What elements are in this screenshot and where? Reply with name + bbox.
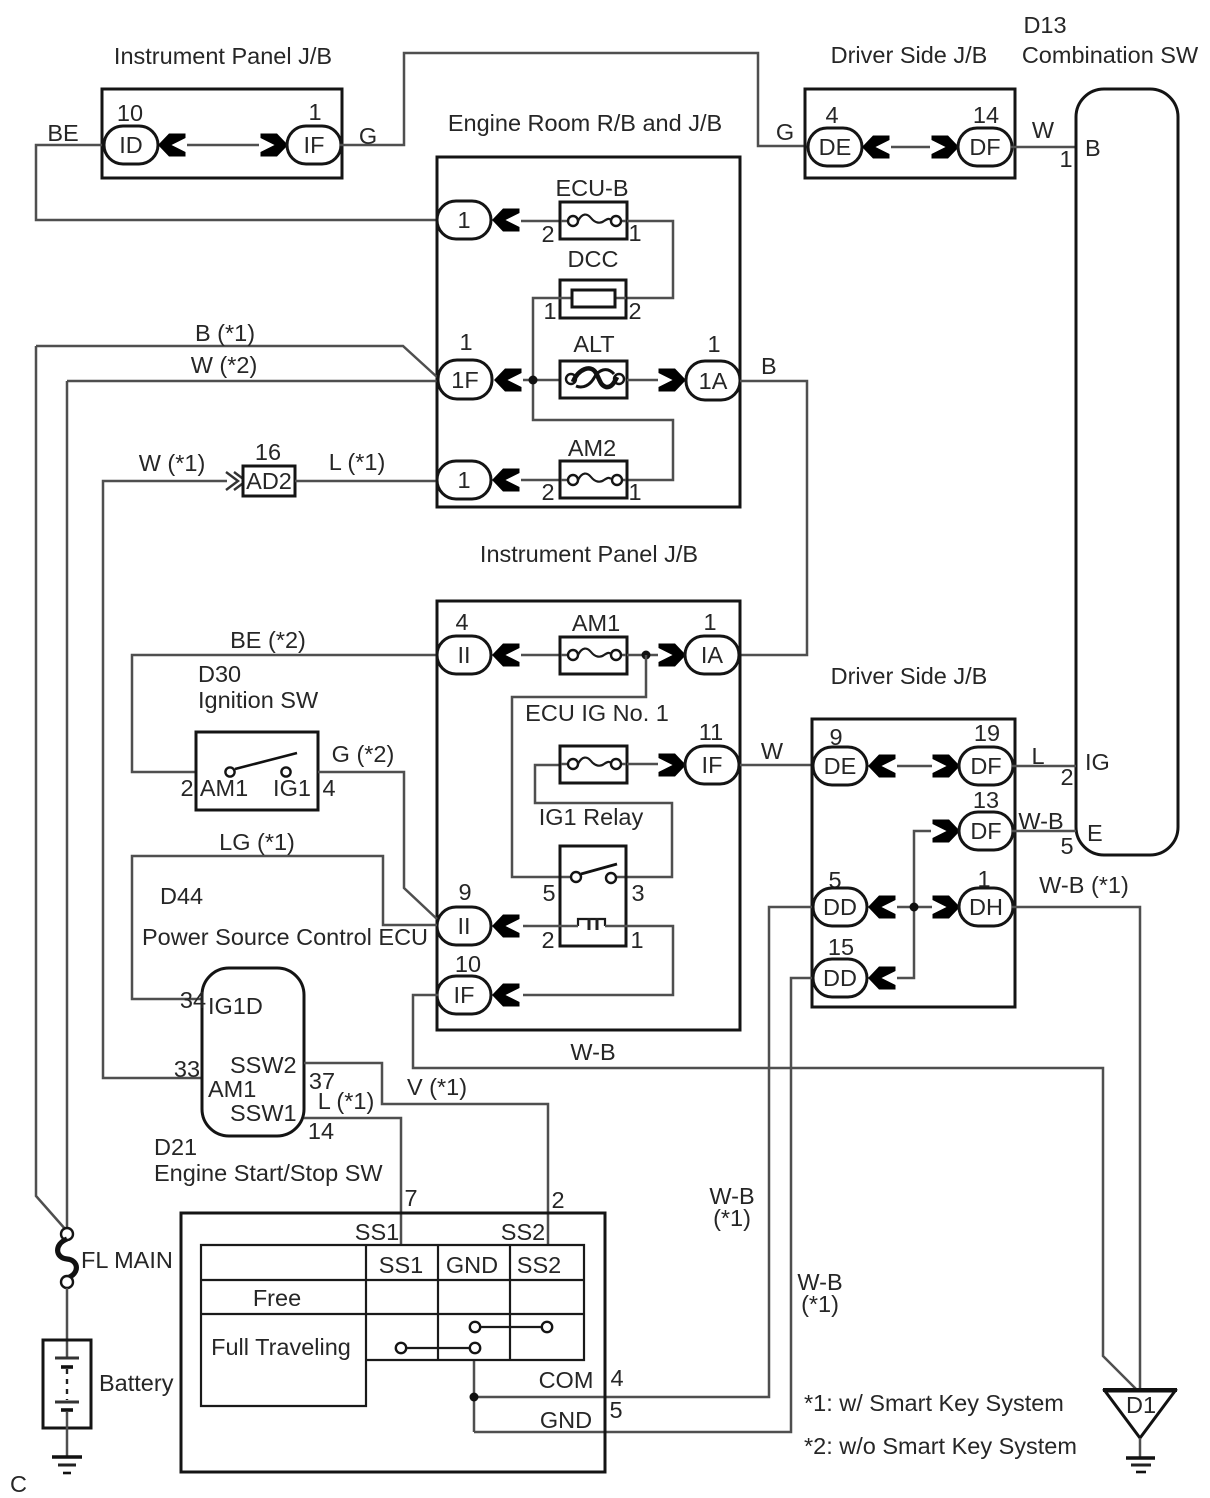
svg-text:IG1: IG1 [273, 775, 311, 801]
svg-text:GND: GND [446, 1252, 498, 1278]
wire DD15 up to DF13 arrow [897, 831, 931, 978]
pin 13 label [973, 787, 999, 813]
svg-text:AM1: AM1 [208, 1076, 256, 1102]
wire W from IF11 to DE9 [740, 764, 812, 767]
label G right [776, 119, 794, 145]
relay IG1 coil [578, 918, 605, 930]
svg-text:AM1: AM1 [572, 610, 620, 636]
svg-text:B (*1): B (*1) [195, 320, 255, 346]
svg-text:L: L [1031, 743, 1044, 769]
terminal SS1 label top [355, 1219, 399, 1245]
wire L(*1) from SSW1 to SS1 [304, 1118, 401, 1245]
wire GND to DD15 [474, 978, 812, 1432]
wire W(*2) from battery rail to 1F [67, 380, 437, 383]
svg-text:W-B (*1): W-B (*1) [1039, 872, 1129, 898]
relay IG1 contact [571, 864, 617, 883]
junction block box J/B top left [102, 89, 342, 178]
wire W-B from IF10 to ground D1 [413, 995, 1136, 1389]
wire battery to ground [66, 1412, 69, 1456]
table header GND [446, 1252, 498, 1278]
svg-text:ECU IG No. 1: ECU IG No. 1 [525, 700, 669, 726]
svg-text:SSW1: SSW1 [230, 1100, 297, 1126]
svg-text:Engine Start/Stop SW: Engine Start/Stop SW [154, 1160, 383, 1186]
svg-text:C: C [10, 1471, 27, 1497]
pin 2 label AM2 [541, 479, 554, 505]
fuse FL MAIN [58, 1228, 77, 1288]
table header SS2 [517, 1252, 561, 1278]
svg-text:2: 2 [1060, 764, 1073, 790]
svg-text:1: 1 [308, 99, 321, 125]
arrow left at II pin9 [492, 915, 520, 938]
switch D30 ignition SW box [196, 732, 318, 810]
wire fuse to IF11 arrow [627, 763, 658, 766]
connector DH [959, 888, 1013, 926]
svg-text:DCC: DCC [568, 246, 619, 272]
connector 1F [438, 360, 492, 399]
svg-text:1: 1 [543, 298, 556, 324]
wire ECU-B pin1 to DCC pin2 [627, 221, 673, 298]
wire B(*1) from battery rail to 1F [36, 346, 437, 377]
connector DF [958, 128, 1012, 166]
pin 2 label DCC [628, 298, 641, 324]
svg-text:AM2: AM2 [568, 435, 616, 461]
connector ID [104, 126, 158, 164]
wire W from DF to combination switch [1011, 146, 1076, 149]
junction node DD5-DH-DF13 [910, 903, 919, 912]
svg-text:1: 1 [457, 207, 470, 233]
arrow left at connector 1 bottom [492, 469, 520, 492]
label D44 [160, 883, 203, 909]
svg-text:ALT: ALT [573, 331, 614, 357]
arrow right at DF [932, 136, 960, 159]
svg-text:1: 1 [630, 927, 643, 953]
svg-text:SS1: SS1 [379, 1252, 423, 1278]
label W (*1) [139, 450, 206, 476]
wire between DD5 and DH arrows [897, 906, 932, 909]
title Instrument Panel J/B (top left) [114, 43, 332, 69]
svg-text:BE: BE [47, 120, 78, 146]
svg-text:5: 5 [609, 1397, 622, 1423]
svg-text:W-B: W-B [1018, 808, 1063, 834]
label D30 [198, 661, 241, 687]
svg-text:10: 10 [117, 100, 143, 126]
wire relay coil pin2 to II9 arrow [523, 925, 578, 928]
label Engine Start/Stop SW [154, 1160, 383, 1186]
pin 2 label combination SW [1060, 764, 1073, 790]
svg-text:W: W [1032, 117, 1055, 143]
svg-text:ID: ID [119, 132, 143, 158]
pin 10 label [117, 100, 143, 126]
table truth grid [201, 1245, 584, 1406]
ground D1 triangle [1103, 1390, 1177, 1438]
svg-text:D1: D1 [1126, 1392, 1156, 1418]
svg-text:AM1: AM1 [200, 775, 248, 801]
svg-text:7: 7 [404, 1185, 417, 1211]
pin 33 label [174, 1056, 200, 1082]
svg-text:II: II [457, 913, 470, 939]
svg-text:1: 1 [457, 467, 470, 493]
terminal E label [1087, 820, 1103, 846]
label W between boxes [761, 738, 784, 764]
svg-text:2: 2 [541, 221, 554, 247]
pin 4 label D30 [322, 775, 335, 801]
wire L(*1) from AD2 to connector 1 bottom [295, 480, 437, 483]
svg-text:IF: IF [454, 982, 475, 1008]
connector DE (pin9) [813, 747, 867, 785]
svg-text:1A: 1A [699, 368, 728, 394]
title Driver Side J/B (lower) [831, 663, 988, 689]
label L [1031, 743, 1044, 769]
connector II (pin9) [437, 907, 491, 945]
svg-text:D13: D13 [1023, 12, 1066, 38]
connector 1 (AM2 feed) [437, 461, 491, 499]
label V (*1) [407, 1074, 467, 1100]
arrow left at DE [862, 136, 890, 159]
svg-text:*1: w/ Smart Key System: *1: w/ Smart Key System [804, 1390, 1064, 1416]
pin 9 label II [458, 879, 471, 905]
label BE (*2) [230, 627, 306, 653]
label Battery [99, 1370, 174, 1396]
svg-text:5: 5 [1060, 833, 1073, 859]
svg-text:FL MAIN: FL MAIN [81, 1247, 173, 1273]
label L (*1) at SSW1 [318, 1088, 375, 1114]
svg-text:4: 4 [455, 609, 468, 635]
label B [761, 353, 777, 379]
svg-text:Free: Free [253, 1285, 301, 1311]
svg-text:DF: DF [970, 818, 1001, 844]
wire W-B from DF13 to combination SW E [1012, 830, 1076, 833]
junction block box Driver Side J/B lower [812, 719, 1015, 1007]
svg-text:G: G [776, 119, 794, 145]
connector 1A [686, 361, 740, 400]
label W [1032, 117, 1055, 143]
svg-text:COM: COM [539, 1367, 594, 1393]
arrow left at ID [158, 134, 186, 157]
svg-text:2: 2 [180, 775, 193, 801]
wire relay pin3 to fuse ECU IG No.1 [535, 765, 672, 877]
wire FL MAIN to battery [66, 1288, 69, 1358]
contact SS1-GND [396, 1343, 480, 1353]
note *1 smart key [804, 1390, 1064, 1416]
svg-text:LG (*1): LG (*1) [219, 829, 295, 855]
table row Free [253, 1285, 301, 1311]
svg-text:10: 10 [455, 951, 481, 977]
svg-text:D21: D21 [154, 1134, 197, 1160]
terminal AM1 label D44 [208, 1076, 256, 1102]
label D21 [154, 1134, 197, 1160]
svg-text:IA: IA [701, 642, 724, 668]
svg-text:5: 5 [542, 880, 555, 906]
svg-text:E: E [1087, 820, 1103, 846]
pin 2 label ECU-B [541, 221, 554, 247]
svg-text:Engine Room R/B and J/B: Engine Room R/B and J/B [448, 110, 722, 136]
svg-text:Driver Side J/B: Driver Side J/B [831, 42, 988, 68]
svg-text:2: 2 [628, 298, 641, 324]
svg-text:IG: IG [1085, 749, 1110, 775]
label IG1 Relay [539, 804, 644, 830]
svg-text:(*1): (*1) [713, 1205, 751, 1231]
junction block box Instrument Panel J/B middle [437, 601, 740, 1030]
connector IF (pin10) [437, 976, 491, 1014]
svg-text:L (*1): L (*1) [318, 1088, 375, 1114]
pin 5 label combination SW [1060, 833, 1073, 859]
svg-text:16: 16 [255, 439, 281, 465]
svg-text:Power Source Control ECU: Power Source Control ECU [142, 924, 428, 950]
wire B from 1A down to IA [740, 381, 807, 655]
svg-text:V (*1): V (*1) [407, 1074, 467, 1100]
svg-text:W (*1): W (*1) [139, 450, 206, 476]
label 16 above AD2 [255, 439, 281, 465]
ground below D1 [1126, 1458, 1155, 1472]
wire arrow to fuse AM1 [521, 654, 560, 657]
terminal SSW1 label [230, 1100, 297, 1126]
connector DF (pin19) [959, 747, 1013, 785]
svg-text:Instrument Panel J/B: Instrument Panel J/B [480, 541, 698, 567]
relay block box Engine Room R/B and J/B [437, 157, 740, 507]
connector DD (pin15) [813, 959, 867, 997]
pin 34 label [180, 987, 206, 1013]
connector DF (pin13) [959, 812, 1013, 850]
label LG (*1) [219, 829, 295, 855]
svg-text:Ignition SW: Ignition SW [198, 687, 319, 713]
svg-text:Battery: Battery [99, 1370, 174, 1396]
svg-text:DH: DH [969, 894, 1003, 920]
pin 1 label DCC [543, 298, 556, 324]
arrow left at IF pin10 [492, 984, 520, 1007]
fusible link ALT [560, 361, 627, 398]
junction block box Driver Side J/B top [805, 89, 1015, 178]
fuse ECU-B [560, 202, 627, 239]
terminal B label [1085, 135, 1101, 161]
connector IA [685, 636, 739, 674]
pin 5 label DD [828, 867, 841, 893]
wire ALT fuse to arrow right [627, 379, 658, 382]
pin 4 label II [455, 609, 468, 635]
fuse ECU IG No.1 [560, 746, 627, 783]
arrow right at IF [261, 134, 289, 157]
arrow left at DE9 [868, 755, 896, 778]
wire 1F arrow to fuse ALT [523, 379, 561, 382]
wire relay pin1 to IF10 arrow [523, 926, 673, 995]
label BE [47, 120, 78, 146]
pin 2 label relay [541, 927, 554, 953]
svg-text:IF: IF [304, 132, 325, 158]
svg-text:II: II [457, 642, 470, 668]
svg-text:33: 33 [174, 1056, 200, 1082]
terminal SS2 label top [501, 1219, 545, 1245]
label W-B (*1) stack right [797, 1269, 842, 1317]
title Instrument Panel J/B (middle) [480, 541, 698, 567]
label W-B [570, 1039, 615, 1065]
svg-text:1: 1 [628, 220, 641, 246]
svg-text:D44: D44 [160, 883, 203, 909]
fuse AM1 [560, 637, 627, 674]
pin 1 label above 1A [707, 331, 720, 357]
wire G(*2) from IG1 to II9 [318, 772, 437, 919]
svg-text:9: 9 [458, 879, 471, 905]
pin 3 label relay [631, 880, 644, 906]
svg-text:14: 14 [308, 1118, 334, 1144]
svg-text:DE: DE [824, 753, 857, 779]
pin 2 label SS2 wire [551, 1187, 564, 1213]
svg-text:14: 14 [973, 102, 999, 128]
svg-text:GND: GND [540, 1407, 592, 1433]
wire G from IF to Driver Side J/B DE [340, 53, 805, 146]
svg-text:AD2: AD2 [246, 468, 292, 494]
wire LG(*1) from II9 to D44 IG1D [132, 856, 437, 999]
svg-text:1: 1 [1059, 146, 1072, 172]
svg-text:D30: D30 [198, 661, 241, 687]
pin 1 label [308, 99, 321, 125]
svg-text:4: 4 [322, 775, 335, 801]
svg-text:G (*2): G (*2) [332, 741, 395, 767]
wire B(*1) rail down to FL MAIN [36, 346, 66, 1230]
svg-text:DD: DD [823, 965, 857, 991]
connector AD2 [243, 466, 295, 496]
component D13 combination switch body [1076, 89, 1178, 855]
label W-B at DF13 [1018, 808, 1063, 834]
arrow left at 1F [494, 369, 522, 392]
title Engine Room R/B and J/B [448, 110, 722, 136]
arrow right at DH [933, 896, 961, 919]
svg-text:L (*1): L (*1) [329, 449, 386, 475]
junction node after AM1 [642, 651, 651, 660]
pin 14 label [973, 102, 999, 128]
arrow left at DD5 [868, 896, 896, 919]
svg-text:1: 1 [628, 479, 641, 505]
pin 1 label ECU-B [628, 220, 641, 246]
pin 5 label GND [609, 1397, 622, 1423]
label DCC [568, 246, 619, 272]
pin 1 label IA [703, 609, 716, 635]
pin 1 label above 1F [459, 329, 472, 355]
svg-text:DE: DE [819, 134, 852, 160]
svg-text:Driver Side J/B: Driver Side J/B [831, 663, 988, 689]
svg-text:SS1: SS1 [355, 1219, 399, 1245]
svg-text:*2: w/o Smart Key System: *2: w/o Smart Key System [804, 1433, 1077, 1459]
ECU D44 power source control body [202, 968, 304, 1136]
arrow right at DF13 [933, 820, 961, 843]
wire W(*1) from D44 AM1 pin up to AD2 [103, 481, 227, 1078]
wire V(*1) from SSW2 to SS2 [304, 1063, 548, 1245]
wire AM1 node down to relay pin5 [512, 655, 646, 877]
svg-text:2: 2 [541, 927, 554, 953]
terminal AM1 label D30 [200, 775, 248, 801]
svg-text:W-B: W-B [570, 1039, 615, 1065]
svg-text:B: B [761, 353, 777, 379]
switch D21 engine start/stop box [181, 1213, 605, 1472]
svg-text:Instrument Panel J/B: Instrument Panel J/B [114, 43, 332, 69]
junction node at ALT input [529, 376, 538, 385]
wire AM1 fuse to IA arrow [627, 654, 658, 657]
label ECU IG No. 1 [525, 700, 669, 726]
pin 1 label AM2 [628, 479, 641, 505]
svg-text:15: 15 [828, 934, 854, 960]
wire W(*2) rail down to FL MAIN [66, 381, 69, 1229]
pin 9 label DE [829, 724, 842, 750]
title Driver Side J/B (top) [831, 42, 988, 68]
terminal IG1 label D30 [273, 775, 311, 801]
pin 7 label [404, 1185, 417, 1211]
svg-text:DF: DF [970, 753, 1001, 779]
label G (*2) [332, 741, 395, 767]
label W-B (*1) stack left [709, 1183, 754, 1231]
label L (*1) [329, 449, 386, 475]
svg-text:1F: 1F [451, 367, 478, 393]
contact GND-SS2 [470, 1322, 552, 1332]
svg-text:BE (*2): BE (*2) [230, 627, 306, 653]
svg-text:13: 13 [973, 787, 999, 813]
svg-text:B: B [1085, 135, 1101, 161]
label W (*2) [191, 352, 258, 378]
svg-text:IG1 Relay: IG1 Relay [539, 804, 644, 830]
arrow right at DF19 [933, 755, 961, 778]
svg-text:W (*2): W (*2) [191, 352, 258, 378]
relay IG1 box [560, 846, 626, 946]
pin 5 label relay [542, 880, 555, 906]
label AM2 [568, 435, 616, 461]
label Power Source Control ECU [142, 924, 428, 950]
svg-text:ECU-B: ECU-B [555, 175, 628, 201]
label B (*1) [195, 320, 255, 346]
pin 4 label [825, 102, 838, 128]
pin 37 label [309, 1068, 335, 1094]
svg-text:1: 1 [703, 609, 716, 635]
wire between arrows (ID-IF) [187, 144, 259, 147]
arrow left at II pin4 [492, 644, 520, 667]
label FL MAIN [81, 1247, 173, 1273]
svg-text:11: 11 [699, 719, 723, 745]
wire arrow to fuse AM2 [521, 479, 560, 482]
connector IF (pin11) [685, 746, 739, 784]
title D13 [1023, 12, 1066, 38]
fusible link DCC [560, 280, 626, 318]
label AM1 [572, 610, 620, 636]
svg-text:SS2: SS2 [501, 1219, 545, 1245]
wire D1 stem [1139, 1438, 1142, 1457]
arrow right at 1A [659, 369, 687, 392]
connector IF [287, 126, 341, 164]
connector DE [808, 128, 862, 166]
pin 10 label IF [455, 951, 481, 977]
svg-text:1: 1 [459, 329, 472, 355]
pin 2 label D30 [180, 775, 193, 801]
wire BE from battery area to connector ID and to Engine Room [36, 145, 437, 220]
wire arrow to fuse ECU-B [521, 220, 560, 223]
label W-B (*1) [1039, 872, 1129, 898]
label ALT [573, 331, 614, 357]
svg-text:DF: DF [969, 134, 1000, 160]
svg-text:1: 1 [707, 331, 720, 357]
svg-text:W: W [761, 738, 784, 764]
ground below battery [52, 1457, 82, 1473]
connector II (pin4) [437, 636, 491, 674]
svg-text:2: 2 [541, 479, 554, 505]
connector 1 (ECU-B feed) [437, 201, 491, 239]
svg-text:(*1): (*1) [801, 1291, 839, 1317]
svg-text:Combination SW: Combination SW [1022, 42, 1199, 68]
label GND [540, 1407, 592, 1433]
wire W-B(*1) from DH to ground D1 [1012, 907, 1140, 1390]
svg-text:Full Traveling: Full Traveling [211, 1334, 351, 1360]
terminal SSW2 label [230, 1052, 297, 1078]
junction node at COM/GND split [470, 1393, 479, 1402]
connector DD (pin5) [813, 888, 867, 926]
pin 15 label DD [828, 934, 854, 960]
pin 11 label [699, 719, 723, 745]
note *2 smart key [804, 1433, 1077, 1459]
svg-text:3: 3 [631, 880, 644, 906]
